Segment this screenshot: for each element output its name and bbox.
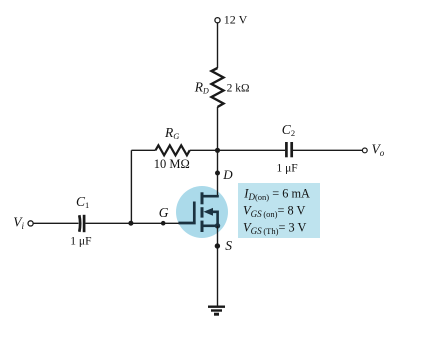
- transistor Q1 channel bottom segment: [201, 221, 204, 232]
- svg-text:1 μF: 1 μF: [277, 163, 298, 175]
- transistor Q1 source lead: [202, 225, 218, 228]
- junction gate-feedback: [128, 221, 133, 226]
- svg-text:C1: C1: [76, 194, 89, 210]
- svg-text:G: G: [159, 205, 169, 220]
- capacitor C1: [79, 215, 84, 232]
- ground: [208, 306, 225, 316]
- svg-text:12 V: 12 V: [224, 13, 248, 27]
- supply terminal 12 V: [215, 18, 220, 23]
- node S: [215, 243, 220, 248]
- output terminal: [362, 148, 367, 153]
- resistor RD: [212, 68, 224, 107]
- junction RG-drain: [215, 148, 220, 153]
- MOSFET highlight circle: [176, 186, 228, 238]
- node D: [215, 171, 220, 176]
- wire C1 to gate: [86, 222, 181, 224]
- svg-text:RG: RG: [164, 125, 179, 141]
- wire Vi to C1: [34, 222, 79, 224]
- wire RD to drain: [217, 107, 219, 197]
- svg-text:1 μF: 1 μF: [70, 235, 91, 247]
- wire C2 to Vo: [293, 149, 363, 151]
- wire output to C2: [218, 149, 286, 151]
- transistor Q1 body lead: [211, 212, 218, 226]
- svg-text:Vo: Vo: [372, 142, 385, 158]
- svg-text:10 MΩ: 10 MΩ: [154, 157, 190, 171]
- capacitor C2: [286, 142, 291, 157]
- wire source to ground: [217, 226, 219, 306]
- transistor Q1 gate electrode: [179, 202, 196, 225]
- input terminal Vi: [28, 221, 33, 226]
- transistor Q1 drain lead: [202, 195, 219, 198]
- wire supply to RD: [217, 23, 219, 68]
- parameter box background: [238, 183, 320, 238]
- junction body-source: [215, 223, 220, 228]
- svg-text:C2: C2: [282, 122, 295, 138]
- transistor Q1 channel middle segment: [201, 207, 204, 217]
- svg-text:S: S: [225, 238, 232, 253]
- wire RG left lead: [131, 149, 155, 151]
- svg-text:D: D: [222, 167, 233, 182]
- transistor Q1 body arrow: [204, 208, 214, 216]
- svg-text:RD: RD: [194, 80, 209, 96]
- svg-text:Vi: Vi: [13, 215, 24, 231]
- transistor Q1 channel top segment: [201, 192, 204, 204]
- svg-text:2 kΩ: 2 kΩ: [227, 83, 250, 95]
- resistor RG: [156, 145, 190, 155]
- wire RG right lead to drain line: [190, 149, 218, 151]
- node G: [161, 221, 166, 226]
- wire feedback vertical: [130, 150, 132, 223]
